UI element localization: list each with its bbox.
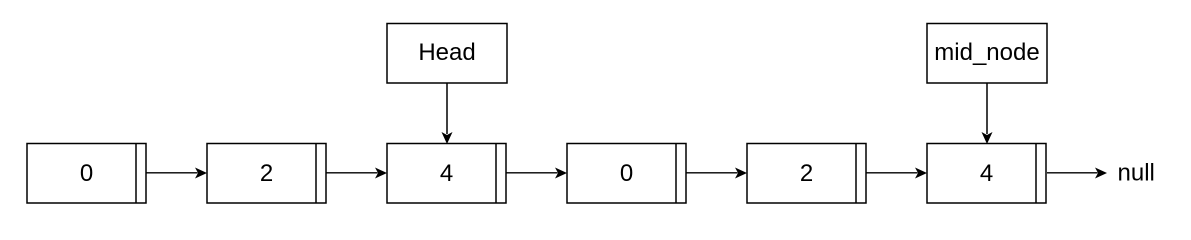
svg-text:mid_node: mid_node bbox=[934, 39, 1039, 66]
svg-text:2: 2 bbox=[260, 160, 273, 187]
svg-text:null: null bbox=[1118, 160, 1155, 187]
svg-text:0: 0 bbox=[620, 160, 633, 187]
svg-text:4: 4 bbox=[980, 160, 993, 187]
svg-text:Head: Head bbox=[418, 39, 475, 66]
svg-text:2: 2 bbox=[800, 160, 813, 187]
svg-text:0: 0 bbox=[80, 160, 93, 187]
svg-text:4: 4 bbox=[440, 160, 453, 187]
